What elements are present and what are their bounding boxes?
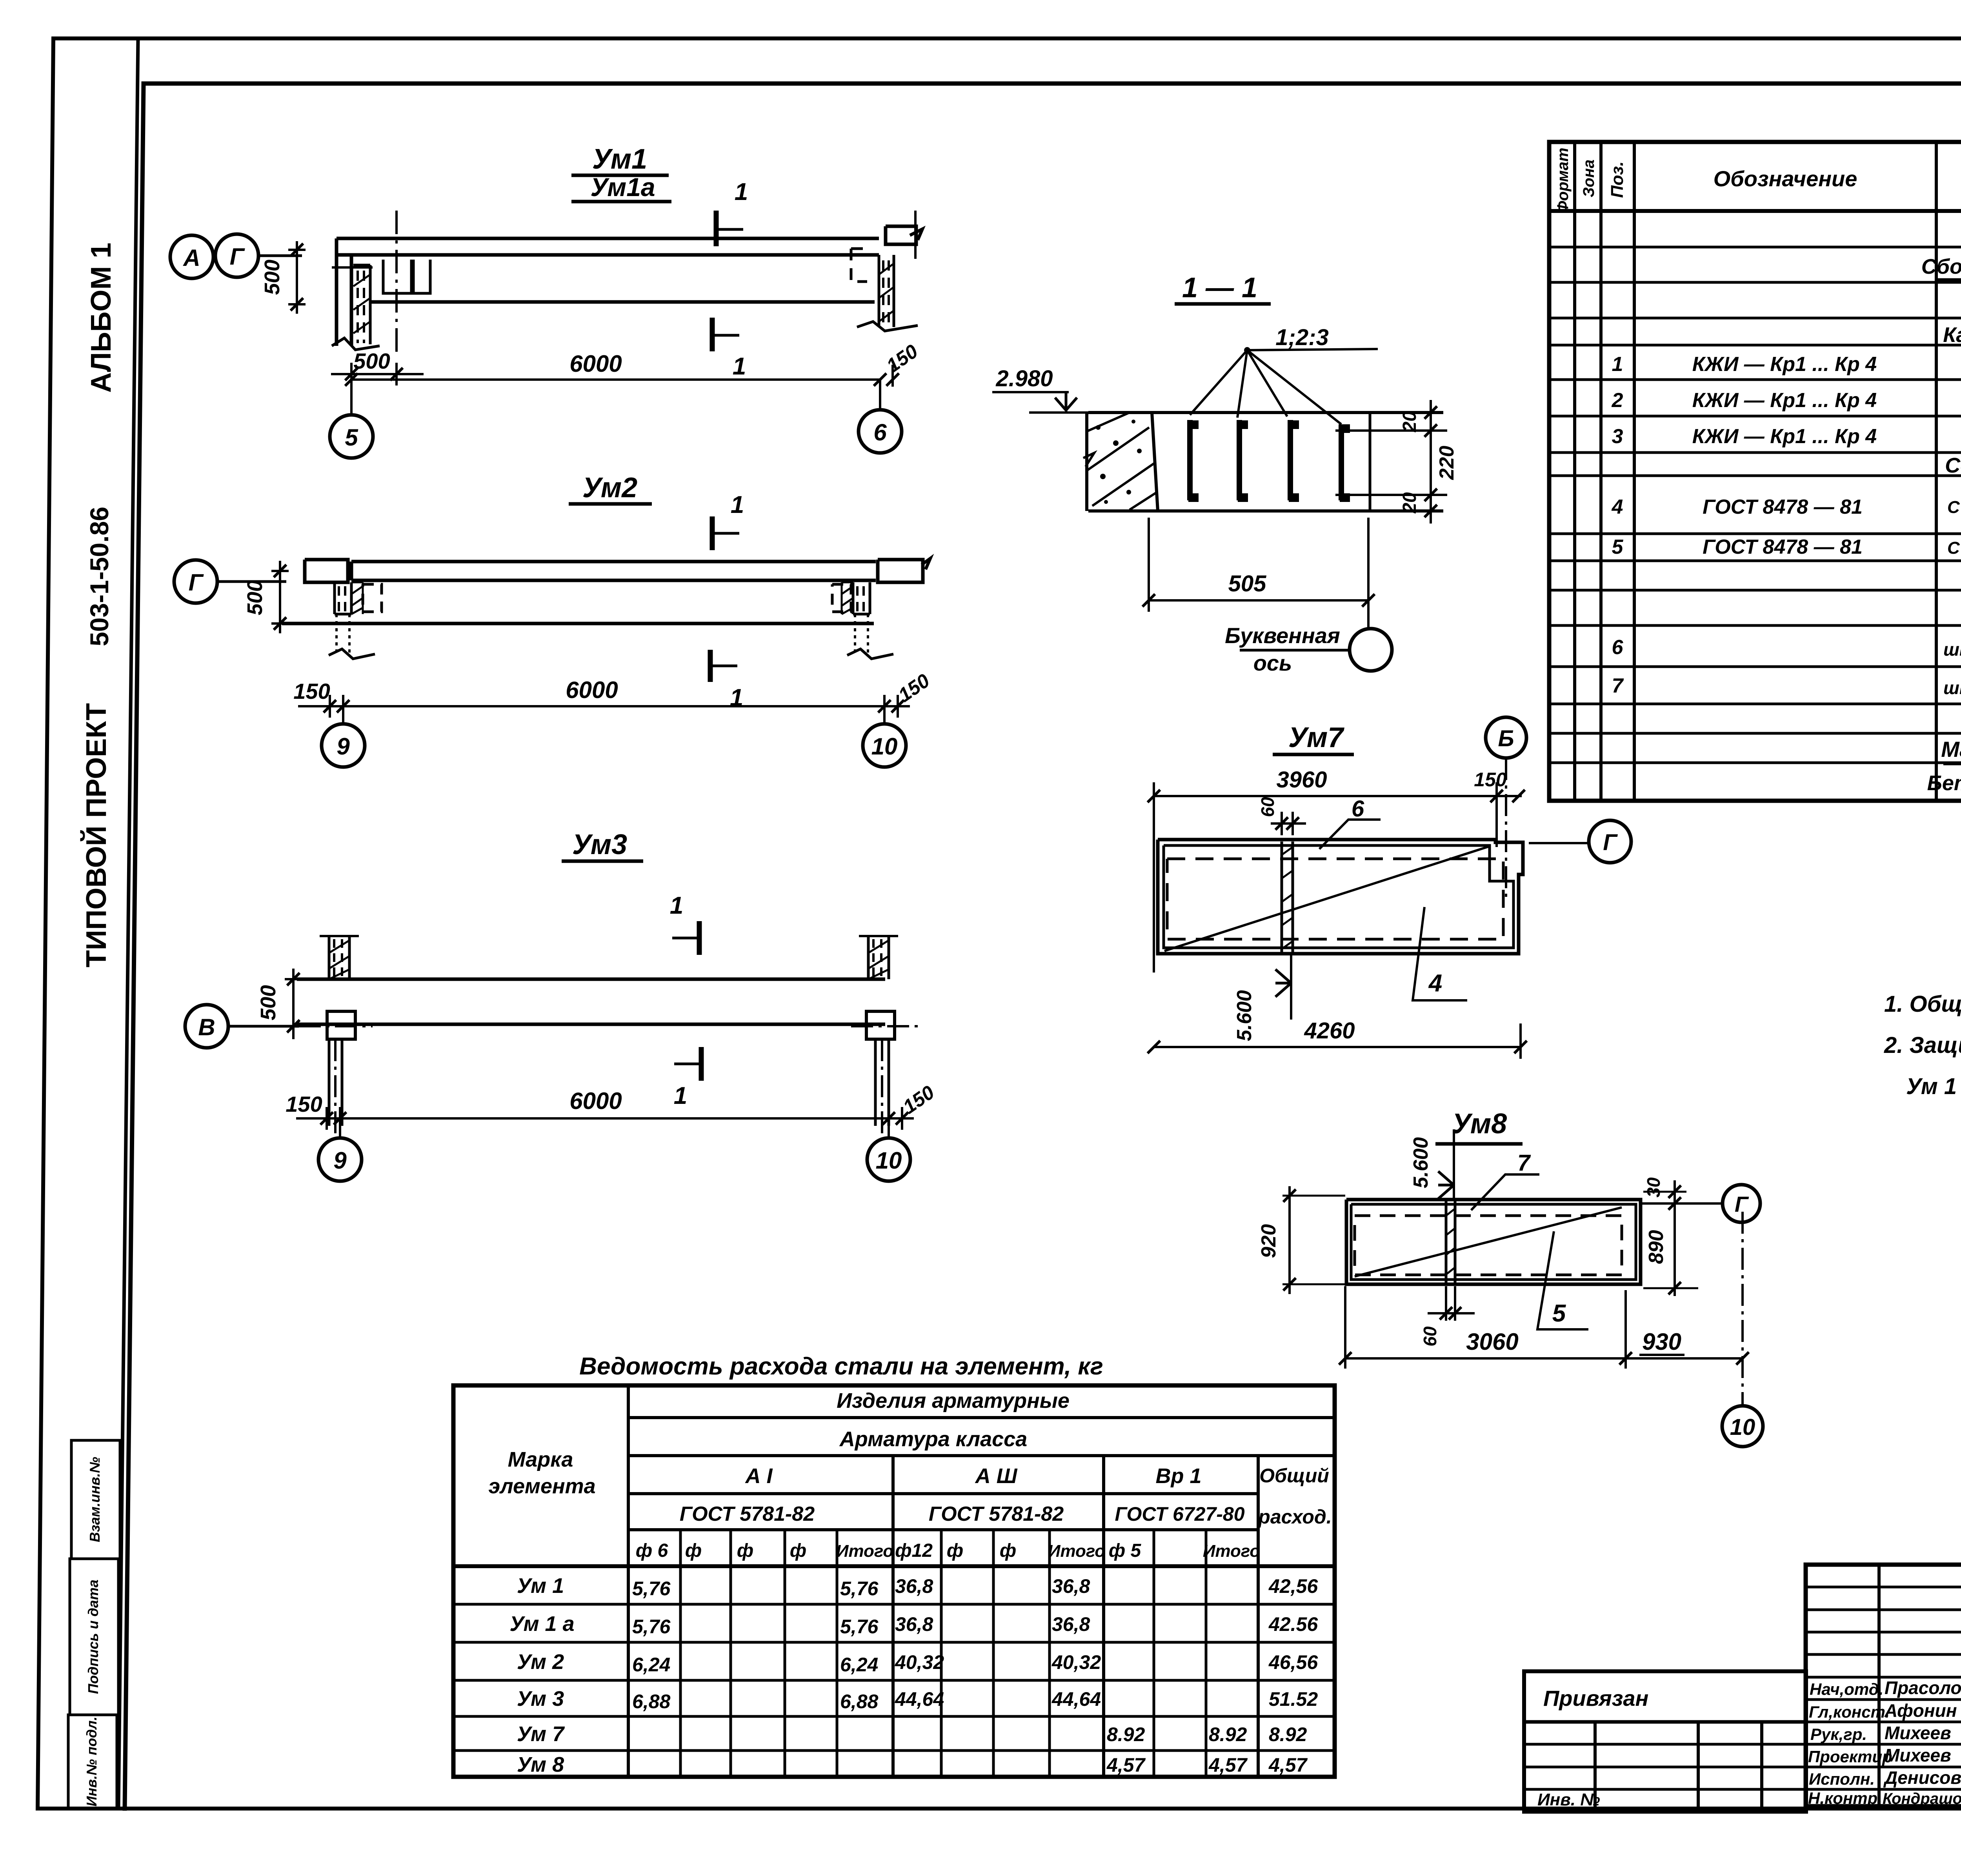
diagonal line (Ум7) [1164,846,1490,951]
axis circle Б (Ум7) [1486,717,1526,902]
svg-text:ГОСТ 8478 — 81: ГОСТ 8478 — 81 [1703,496,1863,518]
svg-text:40,32: 40,32 [895,1651,944,1673]
svg-text:Денисова: Денисова [1883,1767,1961,1788]
section mark 1-1 lower (Ум2) [710,650,743,711]
slab Ум2 [305,558,930,582]
svg-text:Ум 2: Ум 2 [517,1650,564,1674]
title Ум7 [1273,722,1354,754]
svg-text:расход.: расход. [1257,1506,1332,1528]
beam Ум1 slab outline [337,238,879,346]
elevation 5.600 (Ум8) [1410,1129,1454,1200]
svg-text:КЖИ — Кр1 ... Кр 4: КЖИ — Кр1 ... Кр 4 [1692,353,1877,376]
title Ум3 [562,829,643,861]
svg-text:Сетки плоские: Сетки плоские [1945,454,1961,477]
axis line from circles (Ум1) [258,254,302,257]
svg-text:36,8: 36,8 [1052,1575,1090,1597]
svg-text:9: 9 [333,1147,347,1174]
svg-text:8.92: 8.92 [1269,1723,1307,1745]
steel row Ум8 [517,1753,1308,1776]
dimension 505 [1142,518,1375,612]
svg-text:Вр 1: Вр 1 [1155,1464,1201,1488]
svg-text:5: 5 [1612,536,1624,558]
svg-text:Ум 1 а: Ум 1 а [509,1612,574,1636]
svg-text:1;2:3: 1;2:3 [1275,325,1328,350]
svg-text:5,76: 5,76 [632,1578,671,1600]
axis circle А [170,235,213,278]
dimension 6000 with 150s (Ум3) [286,1081,938,1130]
svg-text:6000: 6000 [569,1088,622,1114]
svg-text:505: 505 [1228,571,1267,596]
svg-text:ф 5: ф 5 [1109,1540,1142,1561]
section right edge [1369,413,1372,511]
svg-text:2.980: 2.980 [995,366,1053,391]
section mark 1-1 upper (Ум3) [670,892,699,955]
left strip label АЛЬБОМ 1 [85,243,117,393]
svg-text:36,8: 36,8 [1052,1613,1090,1635]
left column above (Ум3) [320,936,359,979]
svg-text:5.600: 5.600 [1410,1137,1432,1188]
svg-text:В: В [198,1014,215,1040]
svg-text:6,24: 6,24 [840,1654,878,1676]
svg-text:890: 890 [1645,1230,1668,1264]
svg-text:60: 60 [1257,797,1278,817]
section top surface line [1088,411,1443,414]
dimension 6000 (Ум1) [345,351,886,386]
axis circle 10 (Ум3) [867,1118,910,1181]
axis circle 5 [330,380,373,458]
spec section: Сборочные единицы [1921,255,1961,285]
dimension 6000 with 150s (Ум2) [293,669,933,718]
svg-text:Ум 3: Ум 3 [517,1687,564,1711]
left strip divider [118,38,138,1809]
axis circle 9 (Ум2) [322,706,365,767]
svg-text:швеллер 16 ГОСТ 8240-72;l=3,95: швеллер 16 ГОСТ 8240-72;l=3,95м [1943,639,1961,660]
svg-text:51.52: 51.52 [1269,1688,1318,1710]
axis circle Г (Ум2) [174,560,217,603]
spec row 3 КР3 [1612,425,1961,450]
svg-text:1: 1 [674,1082,687,1109]
column axis dash-dot (Ум1) [395,211,398,355]
svg-text:3: 3 [1612,425,1623,448]
svg-text:Ум 7: Ум 7 [517,1722,565,1746]
axis circle Г (Ум8) [1642,1185,1760,1222]
spec row 5 mesh [1612,530,1961,569]
channel strip hatched (Ум8, item 7) [1446,1201,1455,1283]
svg-text:КЖИ — Кр1 ... Кр 4: КЖИ — Кр1 ... Кр 4 [1692,389,1877,412]
left strip bottom stamp boxes [68,1440,120,1809]
svg-text:Формат: Формат [1554,148,1572,213]
svg-text:20: 20 [1399,492,1420,514]
svg-text:Итого: Итого [836,1542,893,1561]
svg-text:Гл,конст.: Гл,конст. [1809,1703,1890,1721]
svg-text:ф: ф [947,1540,963,1561]
svg-text:ТИПОВОЙ ПРОЕКТ: ТИПОВОЙ ПРОЕКТ [80,703,112,967]
svg-text:920: 920 [1257,1224,1280,1258]
rebar carcass bars [1188,420,1350,502]
svg-text:4,57: 4,57 [1208,1754,1248,1776]
svg-text:2: 2 [1612,389,1623,412]
svg-text:ось: ось [1253,651,1292,675]
svg-text:Материалы: Материалы [1941,737,1961,762]
spec row 4 mesh [1612,489,1961,529]
spec section: Сетки плоские [1945,454,1961,477]
title block grid [1806,1565,1961,1806]
svg-text:1: 1 [731,491,744,518]
svg-text:2. Защитный слой бетона при: 2. Защитный слой бетона принять 15 мм дл… [1884,1033,1961,1058]
svg-text:5.600: 5.600 [1233,990,1256,1041]
spec row concrete [1927,770,1961,795]
svg-text:150: 150 [286,1092,322,1116]
svg-text:КЖИ — Кр1 ... Кр 4: КЖИ — Кр1 ... Кр 4 [1692,425,1877,448]
svg-text:930: 930 [1642,1329,1681,1355]
svg-text:А: А [182,245,200,271]
title Ум2 [569,472,652,504]
svg-text:Привязан: Привязан [1543,1686,1648,1711]
axis line (Ум3) [228,1025,299,1028]
svg-text:Обозначение: Обозначение [1714,166,1857,191]
dimension 150 right (Ум1) [882,340,922,387]
svg-text:ф: ф [737,1540,753,1561]
axis dash-dot through beam (Ум3) [299,1025,920,1027]
svg-text:А I: А I [744,1464,773,1488]
plan outline Ум8 [1346,1200,1641,1284]
svg-text:ГОСТ 5781-82: ГОСТ 5781-82 [929,1503,1064,1525]
svg-text:Ведомость расхода стали на э: Ведомость расхода стали на элемент, кг [579,1353,1103,1380]
svg-text:Н,контр.: Н,контр. [1808,1789,1882,1807]
dimension 500 vertical (Ум2) [243,561,289,633]
axis circle 9 (Ум3) [318,1118,362,1181]
svg-text:6000: 6000 [566,677,618,703]
svg-text:ф: ф [685,1540,702,1561]
svg-text:Кондрашова: Кондрашова [1883,1790,1961,1807]
axis circle 6 [859,380,902,453]
svg-text:503-1-50.86: 503-1-50.86 [85,507,114,646]
svg-text:6: 6 [873,419,887,445]
svg-text:7: 7 [1517,1150,1531,1176]
svg-text:Г: Г [230,244,246,270]
leader 4 (mesh) [1413,907,1467,1000]
svg-text:С: С [1947,498,1960,517]
svg-text:ф12: ф12 [895,1540,933,1561]
section mark 1-1 upper (Ум2) [712,491,744,550]
spec table grid [1549,142,1961,877]
spec row 7 channel [1612,674,1961,698]
Привязан texts [1537,1686,1648,1809]
svg-text:ф: ф [1000,1540,1016,1561]
svg-text:Афонин: Афонин [1884,1700,1957,1721]
svg-text:Сборочные единицы.: Сборочные единицы. [1921,255,1961,278]
steel table header texts [488,1389,1332,1561]
svg-text:500: 500 [256,985,280,1020]
svg-text:А Ш: А Ш [975,1464,1018,1488]
svg-text:Проектир: Проектир [1808,1747,1892,1766]
svg-text:Зона: Зона [1580,160,1597,198]
svg-text:Итого: Итого [1203,1542,1260,1561]
svg-text:С: С [1947,538,1960,558]
svg-text:Инв.№ подл.: Инв.№ подл. [84,1716,100,1806]
svg-text:1. Общие указания см. лист 3: 1. Общие указания см. лист 3 [1884,991,1961,1017]
svg-text:Нач,отд.: Нач,отд. [1810,1680,1883,1698]
axis circle Г (Ум7) [1529,820,1631,863]
svg-text:Поз.: Поз. [1608,161,1627,198]
dimension 60 (Ум8) [1420,1286,1475,1347]
dimension 920 (Ум8) [1257,1186,1345,1294]
svg-text:Г: Г [1603,830,1618,855]
svg-text:Взам.инв.№: Взам.инв.№ [87,1457,103,1542]
svg-text:Ум2: Ум2 [582,472,637,504]
svg-text:3960: 3960 [1276,767,1327,793]
axis circle 10 (Ум2) [863,706,906,767]
section mark 1-1 lower (Ум3) [674,1047,701,1109]
plan outline Ум7 [1158,840,1523,954]
svg-text:ГОСТ 5781-82: ГОСТ 5781-82 [680,1503,815,1525]
left strip label ТИПОВОЙ ПРОЕКТ [80,703,112,967]
axis line (Ум2) [217,580,286,583]
svg-text:1: 1 [1612,353,1623,376]
mesh dashed rect (Ум7, item 4) [1167,859,1503,939]
channel strip hatched (Ум7, item 6) [1282,842,1293,952]
svg-text:500: 500 [260,260,284,295]
svg-text:6: 6 [1612,636,1624,659]
title Ум8 [1435,1108,1523,1144]
svg-text:150: 150 [293,679,330,703]
svg-text:150: 150 [1474,769,1507,791]
svg-text:6: 6 [1352,796,1364,822]
steel row Ум1а [509,1612,1318,1638]
beam (Ум3) [297,979,885,1024]
notes text [1884,991,1961,1099]
svg-text:8.92: 8.92 [1107,1723,1145,1745]
svg-text:1: 1 [670,892,683,919]
left bearing block (Ум3) [327,1011,355,1039]
section bottom line [1088,509,1443,513]
leader 6 (channel) [1319,796,1381,849]
svg-text:5,76: 5,76 [840,1578,879,1600]
spec header texts [1554,148,1961,213]
section mark 1-1 upper (Ум1) [716,178,748,246]
svg-text:6000: 6000 [569,351,622,377]
mesh dashed rect (Ум8, item 5) [1355,1216,1622,1275]
svg-text:швеллер 16 ГОСТ 8240-72; l=3,0: швеллер 16 ГОСТ 8240-72; l=3,05 м [1943,678,1961,698]
steel table grid [453,1385,1335,1777]
dimension 150 (Ум7) [1474,769,1507,791]
right column (Ум2) [832,582,893,659]
dimension 3960 (Ум7) [1148,767,1525,973]
column hatch block left (Ум1) [332,265,380,350]
svg-text:Общий: Общий [1259,1465,1329,1487]
svg-text:Ум 1: Ум 1 [517,1574,564,1598]
dimension 20/220/20 right [1399,400,1458,524]
dimension 30/890 (Ум8) [1643,1177,1698,1296]
steel row Ум7 [517,1722,1307,1746]
svg-text:42,56: 42,56 [1268,1575,1318,1597]
svg-text:6,24: 6,24 [632,1654,670,1676]
rebar cover dim extension lines [1335,431,1447,495]
svg-text:Ум 1 — Ум 3 и 10мм — для У: Ум 1 — Ум 3 и 10мм — для Ум 7, Ум 8. [1906,1074,1961,1099]
svg-text:220: 220 [1435,446,1458,480]
svg-text:ГОСТ 8478 — 81: ГОСТ 8478 — 81 [1703,536,1863,558]
steel row Ум1 [517,1574,1318,1600]
steel table title [579,1353,1103,1380]
level mark 2.980 [992,366,1088,413]
svg-text:6,88: 6,88 [632,1691,671,1712]
svg-text:ф 6: ф 6 [636,1540,668,1561]
svg-text:Ум3: Ум3 [572,829,627,860]
right end cap and column (Ум1) [851,211,922,331]
svg-text:Арматура класса: Арматура класса [839,1427,1027,1451]
svg-text:10: 10 [871,733,898,760]
left strip stamp labels [84,1457,103,1807]
steel row Ум3 [517,1687,1318,1712]
steel row Ум2 [517,1650,1318,1676]
axis circle Г (Ум1) [215,234,258,277]
right bearing block (Ум3) [866,1011,895,1039]
svg-text:Ум1: Ум1 [592,144,647,175]
dimension 3060 (Ум8) [1339,1286,1632,1369]
axis circle В [185,1005,228,1048]
svg-text:5: 5 [1552,1300,1566,1327]
diagonal line (Ум8) [1355,1207,1622,1276]
spec row 6 channel [1612,636,1961,660]
svg-text:Михеев: Михеев [1885,1723,1951,1743]
svg-text:Ум8: Ум8 [1452,1108,1507,1140]
svg-text:Михеев: Михеев [1885,1745,1951,1765]
svg-text:АЛЬБОМ 1: АЛЬБОМ 1 [85,243,117,393]
svg-text:44,64: 44,64 [1051,1688,1101,1710]
svg-text:ГОСТ 6727-80: ГОСТ 6727-80 [1115,1503,1244,1525]
svg-text:1: 1 [735,178,748,205]
concrete mix label 1;2:3 with leader [1190,325,1378,424]
svg-text:Прасолов: Прасолов [1885,1678,1961,1698]
svg-text:Б: Б [1498,726,1514,751]
svg-text:20: 20 [1399,411,1420,433]
svg-text:60: 60 [1420,1326,1440,1347]
label Буквенная ось with axis circle [1225,600,1392,675]
svg-text:10: 10 [876,1147,902,1174]
svg-text:44,64: 44,64 [895,1688,944,1710]
svg-text:Каркас плоский: Каркас плоский [1943,323,1961,347]
svg-text:4,57: 4,57 [1268,1754,1308,1776]
svg-text:5,76: 5,76 [840,1616,879,1638]
spec section: Каркас плоский [1943,323,1961,347]
svg-text:3060: 3060 [1466,1329,1518,1355]
svg-text:500: 500 [353,349,390,373]
right column above (Ум3) [859,936,898,979]
svg-text:Инв. №: Инв. № [1537,1790,1600,1809]
svg-text:9: 9 [337,733,350,760]
svg-text:7: 7 [1612,674,1624,697]
svg-text:Буквенная: Буквенная [1225,623,1340,648]
svg-text:Подпись и дата: Подпись и дата [85,1580,101,1694]
dimension 4260 (Ум7) [1148,1018,1527,1059]
dimension 500 vertical (Ум3) [256,969,302,1039]
svg-text:Изделия арматурные: Изделия арматурные [837,1389,1070,1412]
svg-text:6,88: 6,88 [840,1691,879,1712]
svg-text:Ум 8: Ум 8 [517,1753,564,1776]
svg-text:30: 30 [1643,1177,1664,1198]
svg-text:40,32: 40,32 [1051,1651,1101,1673]
svg-text:ф: ф [790,1540,806,1561]
svg-text:42.56: 42.56 [1268,1613,1318,1635]
svg-text:Бетон класса В 12,5: Бетон класса В 12,5 [1927,771,1961,795]
svg-text:46,56: 46,56 [1268,1651,1318,1673]
svg-text:элемента: элемента [488,1474,595,1498]
section mark 1-1 lower (Ум1) [712,318,746,380]
svg-text:36,8: 36,8 [895,1613,933,1635]
beam pocket dashed rects (Ум1) [332,260,430,293]
dimension 500 horizontal (Ум1) [331,349,424,385]
spec section: Материалы [1941,737,1961,764]
svg-text:Ум1а: Ум1а [590,173,655,202]
svg-text:Итого: Итого [1048,1542,1105,1561]
svg-text:4: 4 [1428,970,1442,997]
left strip label 503-1-50.86 [85,507,114,646]
svg-text:500: 500 [243,580,267,615]
svg-text:Ум7: Ум7 [1288,722,1344,753]
leader 7 (channel) [1471,1150,1539,1210]
title 1-1 [1175,272,1271,304]
svg-text:5,76: 5,76 [632,1616,671,1638]
spec row 1 КР1 [1612,353,1961,378]
svg-text:36,8: 36,8 [895,1575,933,1597]
svg-text:5: 5 [345,424,358,451]
axis circle 10 (Ум8) [1722,1212,1763,1447]
beam soffit (Ум2) [282,622,874,625]
Привязан block [1524,1671,1806,1812]
left column below (Ум3) [329,1039,342,1133]
svg-text:8.92: 8.92 [1209,1723,1247,1745]
svg-text:10: 10 [1730,1414,1755,1440]
svg-text:Марка: Марка [508,1448,573,1471]
svg-text:1 — 1: 1 — 1 [1182,272,1257,304]
title Ум1/Ум1а [571,144,671,202]
elevation 5.600 (Ум7) [1233,954,1291,1041]
svg-text:4260: 4260 [1304,1018,1355,1043]
svg-text:4,57: 4,57 [1106,1754,1146,1776]
svg-text:Исполн.: Исполн. [1809,1770,1875,1788]
left column (Ум2) [329,582,382,659]
concrete wall block with hatch [1083,413,1158,511]
svg-text:Г: Г [189,569,204,596]
dimension 930 (Ум8) [1626,1329,1749,1365]
right column below (Ум3) [875,1039,889,1133]
spec row 2 КР2 [1612,389,1961,414]
svg-text:Рук,гр.: Рук,гр. [1810,1725,1867,1743]
signature rows [1808,1678,1961,1807]
leader 5 (mesh) [1537,1231,1588,1329]
svg-text:1: 1 [733,353,746,380]
svg-text:4: 4 [1612,496,1623,518]
dimension 60 (Ум7) [1257,797,1306,835]
dimension 500 vertical (Ум1) [260,241,306,314]
